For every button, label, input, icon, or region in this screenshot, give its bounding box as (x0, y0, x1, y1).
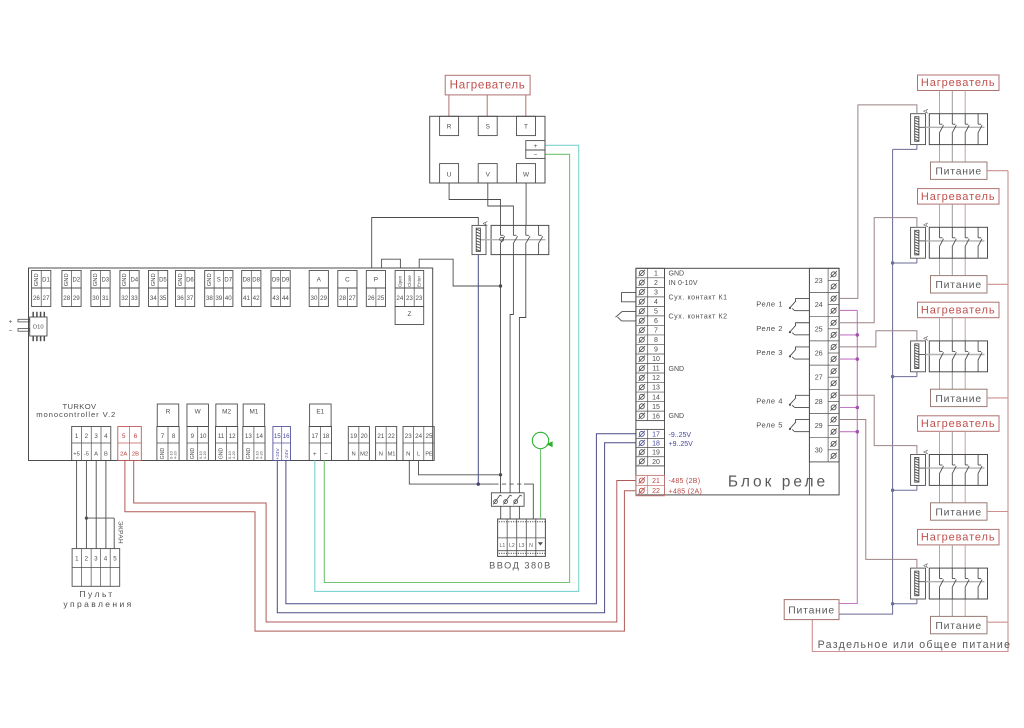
svg-text:23: 23 (405, 433, 412, 440)
svg-text:R: R (447, 124, 452, 131)
svg-text:41: 41 (243, 295, 250, 302)
svg-text:5: 5 (113, 556, 117, 563)
svg-text:8: 8 (172, 433, 176, 440)
svg-text:33: 33 (131, 295, 138, 302)
svg-text:11: 11 (652, 366, 659, 373)
svg-text:Нагреватель: Нагреватель (450, 79, 526, 92)
svg-text:Реле 5: Реле 5 (756, 421, 783, 430)
svg-text:23: 23 (415, 295, 422, 302)
svg-text:18: 18 (652, 441, 660, 448)
svg-text:monocontroller V.2: monocontroller V.2 (36, 410, 116, 419)
svg-text:N: N (352, 451, 356, 457)
svg-text:9: 9 (654, 347, 658, 354)
svg-text:Z: Z (407, 311, 411, 318)
svg-text:L3: L3 (519, 543, 525, 549)
svg-text:36: 36 (177, 295, 184, 302)
svg-text:Сух. контакт К2: Сух. контакт К2 (669, 314, 728, 321)
svg-text:7: 7 (161, 433, 165, 440)
svg-text:2B: 2B (132, 451, 139, 457)
svg-text:-24V: -24V (284, 449, 290, 460)
svg-text:А: А (923, 222, 930, 227)
svg-text:−: − (9, 328, 13, 335)
svg-text:Реле 1: Реле 1 (756, 300, 783, 309)
svg-text:Питание: Питание (935, 167, 982, 178)
svg-text:GND: GND (151, 273, 157, 286)
svg-text:L2: L2 (509, 543, 515, 549)
svg-text:GND: GND (178, 273, 184, 286)
svg-text:GND: GND (246, 448, 252, 460)
svg-text:27: 27 (43, 295, 50, 302)
svg-text:Реле 2: Реле 2 (756, 324, 783, 333)
svg-text:34: 34 (150, 295, 157, 302)
svg-text:12: 12 (652, 375, 660, 382)
svg-text:А: А (923, 449, 930, 454)
svg-text:Enter: Enter (417, 276, 422, 287)
svg-text:U: U (447, 171, 452, 178)
svg-text:GND: GND (669, 270, 685, 277)
svg-text:17: 17 (652, 431, 660, 438)
svg-text:+5: +5 (73, 451, 80, 457)
svg-text:20: 20 (361, 433, 368, 440)
svg-text:Блок реле: Блок реле (728, 474, 828, 491)
svg-text:W: W (523, 171, 530, 178)
svg-text:4: 4 (654, 299, 658, 306)
svg-text:Open: Open (398, 275, 403, 287)
svg-text:2A: 2A (120, 451, 127, 457)
svg-text:−: − (324, 451, 328, 458)
svg-text:Реле 3: Реле 3 (756, 348, 783, 357)
svg-text:37: 37 (186, 295, 193, 302)
svg-text:4: 4 (104, 556, 108, 563)
svg-text:22: 22 (388, 433, 395, 440)
svg-text:M2: M2 (222, 409, 231, 416)
svg-text:D6: D6 (186, 278, 194, 284)
svg-text:А: А (482, 221, 489, 226)
svg-text:T: T (524, 124, 528, 131)
svg-text:29: 29 (73, 295, 80, 302)
svg-text:3: 3 (654, 290, 658, 297)
svg-text:25: 25 (426, 433, 433, 440)
svg-text:Пульт: Пульт (79, 589, 114, 599)
svg-text:D8: D8 (243, 278, 251, 284)
svg-text:6: 6 (134, 433, 138, 440)
svg-text:+485 (2А): +485 (2А) (669, 488, 703, 495)
svg-text:GND: GND (34, 273, 40, 286)
svg-text:23: 23 (815, 276, 823, 285)
svg-text:4-20: 4-20 (258, 450, 263, 459)
svg-text:ЭКРАН: ЭКРАН (117, 521, 124, 544)
svg-text:Нагреватель: Нагреватель (921, 532, 996, 544)
svg-text:7: 7 (654, 328, 658, 335)
svg-text:Раздельное или общее питание: Раздельное или общее питание (818, 639, 1012, 651)
svg-text:38: 38 (206, 295, 213, 302)
svg-text:M2: M2 (360, 451, 368, 457)
svg-text:11: 11 (218, 433, 225, 440)
svg-text:30: 30 (815, 445, 823, 454)
svg-text:D8: D8 (252, 278, 260, 284)
svg-text:21: 21 (652, 478, 660, 485)
svg-text:30: 30 (92, 295, 99, 302)
svg-text:2: 2 (85, 556, 89, 563)
svg-text:4-20: 4-20 (172, 450, 177, 459)
svg-text:Реле 4: Реле 4 (756, 396, 783, 405)
svg-text:S: S (217, 278, 221, 284)
svg-text:31: 31 (102, 295, 109, 302)
svg-text:D3: D3 (101, 278, 109, 284)
svg-text:D5: D5 (159, 278, 167, 284)
svg-text:23: 23 (406, 295, 413, 302)
svg-text:Нагреватель: Нагреватель (921, 304, 996, 316)
svg-text:N: N (406, 451, 410, 457)
svg-text:44: 44 (282, 295, 289, 302)
svg-text:Сух. контакт К1: Сух. контакт К1 (669, 295, 728, 302)
svg-text:A: A (94, 451, 98, 457)
svg-text:C: C (345, 277, 350, 284)
svg-text:14: 14 (652, 394, 660, 401)
svg-text:2: 2 (654, 280, 658, 287)
svg-text:V: V (486, 171, 491, 178)
svg-text:Питание: Питание (935, 507, 982, 518)
svg-text:1: 1 (654, 271, 658, 278)
svg-text:Питание: Питание (935, 394, 982, 405)
svg-text:1: 1 (75, 556, 79, 563)
svg-text:4-20: 4-20 (231, 450, 236, 459)
svg-text:15: 15 (652, 404, 660, 411)
svg-text:Нагреватель: Нагреватель (921, 191, 996, 203)
svg-text:13: 13 (652, 385, 660, 392)
svg-text:25: 25 (377, 295, 384, 302)
svg-text:16: 16 (652, 413, 660, 420)
svg-text:27: 27 (349, 295, 356, 302)
svg-text:R: R (166, 409, 171, 416)
svg-text:PE: PE (425, 451, 433, 457)
svg-text:D9: D9 (282, 278, 290, 284)
svg-text:25: 25 (815, 324, 823, 333)
svg-text:26: 26 (33, 295, 40, 302)
svg-text:А: А (923, 336, 930, 341)
svg-text:2: 2 (85, 433, 89, 440)
svg-text:10: 10 (200, 433, 207, 440)
svg-text:GND: GND (122, 273, 128, 286)
svg-text:B: B (104, 451, 108, 457)
svg-text:ВВОД 380В: ВВОД 380В (489, 561, 552, 571)
svg-text:19: 19 (350, 433, 357, 440)
svg-text:D10: D10 (33, 325, 44, 331)
svg-text:6: 6 (654, 318, 658, 325)
svg-text:28: 28 (339, 295, 346, 302)
svg-text:IN 0-10V: IN 0-10V (669, 280, 698, 287)
svg-text:26: 26 (815, 349, 823, 358)
svg-text:D2: D2 (72, 278, 80, 284)
svg-text:+: + (313, 451, 317, 458)
svg-text:M1: M1 (387, 451, 395, 457)
svg-text:29: 29 (320, 295, 327, 302)
svg-text:17: 17 (311, 433, 318, 440)
svg-text:GND: GND (207, 273, 213, 286)
svg-text:5: 5 (654, 309, 658, 316)
svg-text:21: 21 (377, 433, 384, 440)
svg-text:5: 5 (122, 433, 126, 440)
svg-text:А: А (923, 563, 930, 568)
svg-text:+: + (533, 143, 537, 150)
svg-text:3: 3 (94, 433, 98, 440)
svg-text:+9..25V: +9..25V (669, 441, 694, 448)
svg-text:40: 40 (225, 295, 232, 302)
svg-text:1: 1 (75, 433, 79, 440)
svg-text:D1: D1 (42, 278, 50, 284)
svg-text:N: N (379, 451, 383, 457)
svg-text:-5: -5 (84, 451, 89, 457)
svg-text:D9: D9 (272, 278, 280, 284)
svg-text:28: 28 (63, 295, 70, 302)
svg-text:24: 24 (415, 433, 422, 440)
svg-text:D4: D4 (130, 278, 138, 284)
svg-text:26: 26 (368, 295, 375, 302)
svg-text:8: 8 (654, 337, 658, 344)
svg-text:16: 16 (283, 433, 290, 440)
svg-text:W: W (195, 409, 202, 416)
svg-text:14: 14 (256, 433, 263, 440)
svg-text:P: P (374, 277, 378, 284)
svg-text:27: 27 (815, 373, 823, 382)
svg-text:+: + (9, 318, 13, 325)
svg-text:22: 22 (652, 488, 660, 495)
svg-text:N: N (529, 543, 533, 549)
svg-text:12: 12 (229, 433, 236, 440)
svg-text:24: 24 (815, 300, 823, 309)
svg-text:9: 9 (191, 433, 195, 440)
svg-text:29: 29 (815, 421, 823, 430)
svg-text:43: 43 (272, 295, 279, 302)
svg-text:Нагреватель: Нагреватель (921, 418, 996, 430)
svg-text:M1: M1 (249, 409, 258, 416)
svg-text:15: 15 (274, 433, 281, 440)
svg-text:управления: управления (63, 599, 133, 609)
svg-text:39: 39 (215, 295, 222, 302)
svg-text:10: 10 (652, 356, 660, 363)
svg-text:Питание: Питание (935, 621, 982, 632)
svg-text:4: 4 (104, 433, 108, 440)
svg-text:28: 28 (815, 397, 823, 406)
svg-text:GND: GND (160, 448, 166, 460)
svg-text:GND: GND (669, 366, 685, 373)
svg-text:Close: Close (407, 275, 412, 287)
svg-text:GND: GND (669, 413, 685, 420)
svg-text:S: S (486, 124, 490, 131)
svg-text:4-20: 4-20 (202, 450, 207, 459)
svg-text:-9..25V: -9..25V (669, 432, 692, 439)
svg-text:18: 18 (322, 433, 329, 440)
svg-text:−: − (533, 152, 537, 159)
svg-text:Питание: Питание (788, 606, 835, 617)
svg-text:GND: GND (93, 273, 99, 286)
svg-text:13: 13 (245, 433, 252, 440)
svg-text:42: 42 (253, 295, 260, 302)
svg-text:-485 (2В): -485 (2В) (669, 478, 701, 485)
svg-text:19: 19 (652, 450, 660, 457)
svg-text:3: 3 (94, 556, 98, 563)
svg-text:D7: D7 (224, 278, 232, 284)
svg-text:Питание: Питание (935, 280, 982, 291)
svg-text:L1: L1 (499, 543, 505, 549)
svg-text:35: 35 (159, 295, 166, 302)
svg-text:20: 20 (652, 459, 660, 466)
svg-text:GND: GND (219, 448, 225, 460)
svg-text:Нагреватель: Нагреватель (921, 77, 996, 89)
svg-text:32: 32 (121, 295, 128, 302)
svg-text:А: А (923, 108, 930, 113)
svg-text:E1: E1 (316, 409, 324, 416)
svg-text:GND: GND (64, 273, 70, 286)
svg-text:GND: GND (190, 448, 196, 460)
svg-text:A: A (317, 277, 322, 284)
svg-text:+24V: +24V (275, 447, 281, 459)
svg-text:30: 30 (311, 295, 318, 302)
svg-text:24: 24 (396, 295, 403, 302)
